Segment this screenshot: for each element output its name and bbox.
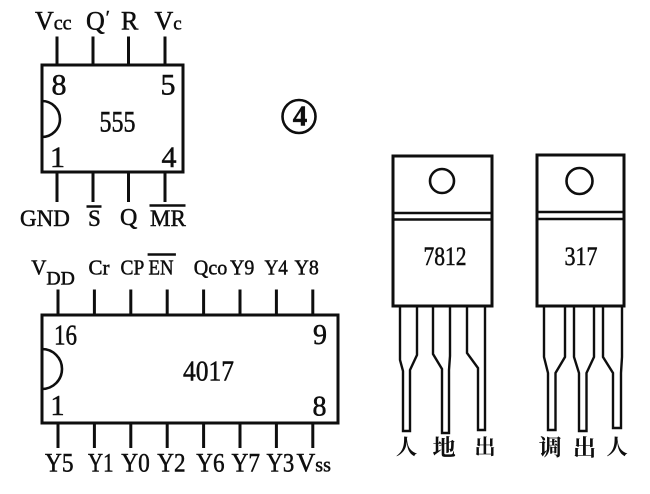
svg-text:Y6: Y6 (196, 449, 224, 478)
svg-text:5: 5 (161, 69, 176, 102)
svg-text:Y3: Y3 (267, 449, 295, 478)
U2 bottom pin wire (Y3) (275, 423, 278, 448)
U1 pin 6 wire (R) (127, 37, 130, 66)
U3 leg 3 (output) (467, 306, 485, 430)
svg-text:555: 555 (100, 106, 136, 139)
U3 tab separation line upper (393, 212, 492, 214)
svg-text:Y4: Y4 (265, 256, 289, 280)
U1 pin 2 wire (S bar) (92, 172, 95, 202)
U1 pin 1 wire (GND) (56, 172, 59, 202)
U2 pin label EN with overline (148, 255, 176, 280)
U4 leg 2 (output) (574, 306, 594, 431)
U4 mounting hole (567, 168, 593, 194)
U2 bottom pin wire (Y1) (93, 423, 96, 448)
svg-text:Cr: Cr (89, 256, 110, 280)
U3 leg 2 (ground) (433, 306, 450, 433)
svg-text:Qco: Qco (194, 256, 228, 280)
svg-text:EN: EN (149, 256, 174, 280)
svg-text:1: 1 (51, 391, 65, 422)
U4 leg label chu (out) (574, 436, 594, 458)
U2 top pin wire (CP) (129, 290, 132, 316)
svg-text:4: 4 (162, 141, 177, 174)
U1 pin 4 wire (MR bar) (164, 172, 167, 202)
U4 leg label ren (in) (607, 437, 627, 457)
U2 bottom pin wire (Y7) (239, 423, 242, 448)
U4 leg 3 (input) (603, 306, 622, 428)
svg-text:4017: 4017 (183, 356, 234, 387)
svg-text:Y9: Y9 (230, 256, 254, 280)
svg-text:CP: CP (121, 256, 145, 280)
U2 top pin wire (Cr) (93, 290, 96, 316)
U1 pin label MR with overline (150, 206, 187, 232)
svg-text:4: 4 (293, 101, 308, 133)
svg-text:Q: Q (120, 205, 137, 231)
U2 top pin wire (Y8) (311, 290, 314, 316)
U2 top pin wire (EN bar) (166, 290, 169, 316)
svg-text:8: 8 (52, 69, 67, 102)
U2 bottom pin wire (Vss) (311, 423, 314, 448)
svg-text:Y7: Y7 (232, 449, 261, 478)
svg-text:R: R (121, 7, 139, 36)
svg-text:Y5: Y5 (45, 449, 74, 478)
U2 bottom pin wire (Y5) (57, 423, 60, 448)
svg-text:16: 16 (54, 321, 77, 352)
svg-text:9: 9 (313, 320, 327, 351)
svg-text:S: S (88, 206, 101, 231)
figure number circled 4 (283, 100, 316, 133)
svg-text:8: 8 (313, 392, 327, 423)
svg-text:Y2: Y2 (157, 449, 185, 478)
U4 tab separation line upper (537, 211, 624, 213)
U1 pin label S with overline (87, 206, 102, 231)
U2 top pin wire (Y9) (239, 290, 242, 316)
svg-text:Y1: Y1 (88, 449, 114, 478)
svg-text:Y8: Y8 (295, 256, 319, 280)
svg-text:317: 317 (565, 242, 598, 271)
svg-text:Y0: Y0 (121, 449, 150, 478)
IC U1 555 body (42, 65, 183, 172)
U1 pin 3 wire (Q) (127, 172, 130, 202)
U4 leg label tiao (adjust) (539, 436, 561, 457)
U2 bottom pin wire (Y0) (129, 423, 132, 448)
U2 bottom pin wire (Y6) (202, 423, 205, 448)
U2 bottom pin wire (Y2) (166, 423, 169, 448)
U4 tab separation line lower (537, 218, 624, 220)
svg-text:GND: GND (20, 206, 70, 231)
regulator U3 7812 body (393, 156, 492, 306)
U2 top pin wire (VDD) (57, 290, 60, 316)
U2 top pin wire (Y4) (275, 290, 278, 316)
regulator U4 317 body (537, 155, 624, 306)
U2 top pin wire (Qco) (202, 290, 205, 316)
U1 pin 7 wire (Q') (92, 37, 95, 66)
svg-text:7812: 7812 (424, 242, 467, 271)
U3 leg label di (ground) (433, 436, 455, 457)
U3 leg label ren (in) (396, 437, 416, 457)
U1 pin 8 wire (Vcc) (56, 37, 59, 66)
svg-text:MR: MR (150, 206, 186, 231)
U3 leg label chu (out) (476, 436, 494, 456)
U3 tab separation line lower (393, 218, 492, 220)
U3 mounting hole (430, 169, 454, 193)
U1 pin 5 wire (Vc) (164, 37, 167, 66)
svg-text:1: 1 (50, 141, 65, 174)
IC U2 4017 body (42, 315, 338, 423)
U3 leg 1 (input) (400, 306, 417, 431)
U4 leg 1 (adjust) (544, 306, 565, 430)
